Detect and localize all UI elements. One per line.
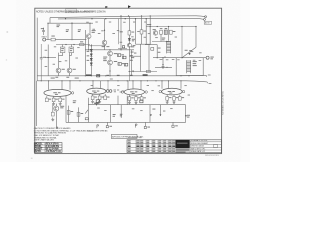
label value 12 (95, 21, 97, 24)
connector arrow B (159, 114, 161, 116)
node rail-upper junction 3 (141, 15, 142, 16)
wire drop x165 (164, 56, 166, 58)
wire C5 to Q7 (59, 53, 63, 56)
node bottom bus j1 (96, 104, 97, 105)
component cluster x122 (122, 46, 124, 48)
label lamp b (114, 90, 116, 93)
wire input to Q1 base (55, 39, 86, 41)
label x131 b (130, 59, 133, 62)
title right hline 3 (190, 146, 222, 148)
transistor Q8 (67, 68, 72, 73)
label bias text b (162, 38, 165, 41)
wire y56 link (129, 55, 140, 57)
tube V4 cathode wire 3 (179, 95, 181, 97)
label value 41 (163, 110, 165, 113)
resistor V4 cathode R1 (166, 97, 169, 101)
connector P1 pin 1 (205, 16, 207, 18)
stamp box col line (44, 143, 46, 153)
label R31 (81, 112, 84, 115)
label mid-right b (131, 56, 134, 59)
title grid text row 1 (128, 140, 131, 141)
diode CR4b (90, 63, 92, 65)
label value 6 (120, 41, 123, 44)
tube V1 envelope (44, 89, 71, 96)
node heater rail junction 14 (161, 80, 162, 81)
node lower bus junction 1b (91, 75, 92, 76)
tube V2 cathode wire 3 (104, 94, 106, 96)
node output row junction 1 (157, 57, 158, 58)
resistor R30 (67, 110, 70, 114)
wire drop x141 lower (141, 34, 143, 44)
label bias network (103, 56, 107, 59)
label below output row 5 (193, 59, 196, 62)
ground below V1 R3 (59, 102, 62, 105)
label value 26 (77, 46, 79, 49)
capacitor C5 box (60, 47, 65, 53)
label Q1 (92, 29, 96, 32)
label R10 (131, 31, 134, 34)
node rail-upper junction 1 (120, 15, 121, 16)
node T1 feed j (168, 26, 169, 27)
node heater rail junction 11 (140, 80, 141, 81)
diode CR2 (90, 54, 92, 56)
tube V2 envelope (87, 88, 106, 94)
wire bottom bus upper (88, 104, 186, 106)
wire drop x135 (135, 19, 137, 45)
wire Q4 top lead (109, 50, 111, 51)
tube V1 cathode wire 2 (53, 96, 55, 98)
label C2 (66, 28, 69, 31)
label V1 R2 (56, 98, 58, 101)
resistor V3 cathode R1 (128, 97, 131, 101)
title grid vline 6 (162, 140, 164, 153)
label out rect b (152, 108, 155, 111)
label value 9 (144, 36, 146, 39)
resistor R16 (160, 30, 163, 34)
node bias bus j4 (181, 26, 182, 27)
svg-text:SCHEMATIC 026145 REV A: SCHEMATIC 026145 REV A (221, 91, 224, 115)
resistor R5 horizontal (80, 43, 84, 45)
node bias bus j3 (157, 26, 158, 27)
label value 3 (101, 29, 103, 32)
wire Q5 bottom lead (109, 65, 111, 76)
label Q8 below (66, 76, 69, 79)
label R30 (71, 110, 74, 113)
label C6 (70, 47, 73, 50)
label bias row 6 (143, 74, 148, 76)
label R16 (160, 27, 163, 30)
wire Q6 bottom (55, 111, 57, 126)
title grid vline 2 (139, 140, 141, 153)
logo block (175, 140, 189, 148)
tube V3 tip circle right (145, 91, 147, 93)
connector jack JC (172, 122, 174, 125)
node rail-lower junction 6 (146, 18, 147, 19)
label x131 a (130, 54, 133, 57)
label rail above (110, 78, 113, 81)
wire y57 link (45, 57, 56, 59)
wire drop x146 (145, 19, 147, 45)
label rail end a (208, 74, 211, 77)
wire bus slant (85, 110, 88, 114)
transistor Q7 (56, 68, 61, 73)
node heater rail junction 7 (107, 80, 108, 81)
label V4 (168, 90, 172, 93)
tube V1 tip circle (71, 92, 73, 94)
node heater rail junction 8 (117, 80, 118, 81)
label V3 R2 (138, 96, 140, 99)
label below output row 4 (177, 58, 179, 61)
tube V3 envelope (124, 89, 144, 95)
wire drop x50 from rail (49, 18, 51, 24)
wire bottom bus lower (66, 121, 186, 123)
node heater rail junction 12 (147, 80, 148, 81)
title right hline 1 (190, 141, 222, 143)
node lower bus junction 1 (85, 75, 86, 76)
node heater rail junction 2 (48, 80, 49, 81)
label CR stack (87, 50, 90, 53)
node Q5 emitter junction (109, 70, 110, 71)
ground below V2 R2 (98, 100, 101, 103)
label value 10 (148, 32, 150, 35)
wire C6 top stub (70, 45, 72, 48)
title right hline 2 (190, 144, 222, 146)
node heater rail junction 10 (132, 80, 133, 81)
transformer T1 primary (167, 41, 171, 54)
tube V4 cathode wire 2 (173, 95, 175, 97)
wire lower bus y76 (37, 75, 206, 77)
top border flag mark B (128, 6, 130, 9)
label below output row 3 (172, 58, 175, 61)
tube V4 tip circle right (182, 90, 184, 92)
label value 5 (117, 29, 119, 32)
diode CR7 (132, 71, 134, 73)
node x121 j (120, 49, 121, 50)
wire Q2 collector drop (104, 19, 106, 41)
wire C6 to Q8 (70, 53, 72, 56)
tube V1 pin 1 wire (48, 81, 50, 90)
label value 29 (91, 84, 93, 87)
diode CR6 on diagonal (188, 53, 190, 55)
wire Q1 emitter drop (88, 39, 90, 50)
tube V3 pin 2 wire (132, 81, 134, 90)
label value 31 (122, 90, 124, 93)
title right divider (189, 140, 191, 153)
component lower-left box (85, 118, 88, 120)
title grid text row 6 (128, 151, 131, 152)
label value 21 (155, 36, 158, 39)
label x157 a (158, 47, 161, 50)
label C3 (43, 56, 46, 59)
tube V3 cathode wire 2 (135, 95, 137, 97)
wire y45.8 link (88, 45, 106, 47)
capacitor C10 (117, 54, 120, 57)
label value 42 (170, 107, 172, 110)
node y49 j1 (88, 49, 89, 50)
label value 34 (158, 84, 160, 87)
tube V4 cathode wire 1 (166, 95, 168, 97)
tube V4 tip circle left (159, 90, 161, 92)
diode CR1 (90, 49, 92, 51)
node bias end j2 (188, 75, 189, 76)
tube V4 pin 3 wire (180, 81, 182, 89)
wire drop x149 phase (148, 45, 150, 72)
node output row junction 3 (181, 57, 182, 58)
wire right edge drop (185, 105, 187, 123)
title block outline (127, 140, 222, 153)
label value 22 (175, 36, 177, 39)
label value 36 (188, 94, 190, 97)
label x121b (120, 113, 123, 116)
title grid vline 4 (151, 140, 153, 153)
component box mid (151, 48, 154, 51)
scan speck left margin 2 (6, 59, 7, 62)
node bias bus j2 (195, 26, 196, 27)
label out rect a (113, 113, 116, 116)
ground below V3 R2 (135, 101, 138, 104)
wire y44 right link (145, 44, 157, 46)
label value 19 (75, 57, 78, 60)
title grid vline 3 (145, 140, 147, 153)
label bias row 3 (106, 74, 109, 77)
resistor R11 (140, 30, 143, 34)
ground below V4 R1 (166, 100, 169, 103)
connector P1 pin 2 (204, 19, 206, 21)
capacitor C3 (40, 58, 43, 59)
label Q2 (102, 45, 105, 48)
label value 33 (151, 89, 153, 92)
resistor V2 cathode R1 (91, 96, 94, 100)
title grid hline 3 (127, 149, 175, 151)
wire drop x131 (131, 50, 133, 76)
label bias bus (147, 23, 151, 26)
resistor V1 cathode R3 (59, 98, 62, 102)
label trem b (73, 101, 76, 104)
label R5 (80, 40, 83, 43)
wire y44 bus (56, 44, 90, 46)
title right hline 4 (190, 149, 222, 151)
node heater rail junction 15 (168, 80, 169, 81)
connector flag F1 (97, 125, 99, 128)
label V2 R3 (107, 96, 109, 99)
node heater rail junction 16 (180, 80, 181, 81)
node bias end j1 (180, 75, 181, 76)
resistor R17 (169, 30, 172, 34)
label below output row 6 (199, 59, 202, 62)
resistor V3 cathode R2 (135, 97, 138, 101)
label x121 component (120, 30, 123, 33)
label T1 secondary rows (193, 60, 197, 63)
wire upper-left horizontal (48, 22, 93, 24)
node rail-upper junction 4 (150, 15, 151, 16)
connector jack JB (144, 122, 146, 126)
wire drop x128 (128, 16, 130, 31)
transistor Q5 (108, 60, 113, 65)
label value 23 (191, 50, 193, 53)
wire y67 link (155, 66, 172, 68)
tube V1 pin 2 wire (61, 81, 63, 90)
title grid vline 7 (167, 140, 169, 153)
resistor V2 cathode R3 (104, 96, 107, 100)
stamp box row line 3 (34, 149, 62, 151)
wire drop x150b (149, 105, 151, 123)
wire y48 short (118, 48, 127, 50)
wire drop x157 (156, 45, 158, 58)
input jack J1 (43, 38, 46, 41)
wire x52 drop (52, 104, 54, 112)
capacitor C11 (123, 56, 126, 59)
wire drop x68 (68, 106, 70, 123)
top border flag mark A (106, 6, 107, 8)
wire phase bottom (130, 71, 157, 73)
resistor R20 (146, 70, 150, 72)
label V4 R1 (169, 96, 171, 99)
node rail-lower junction 2 (91, 18, 92, 19)
tube V2 cathode wire 1 (92, 94, 94, 96)
node rail-lower junction 3 (105, 18, 106, 19)
scan speck left margin (7, 31, 9, 34)
wire drop x160 (159, 105, 161, 115)
label bias row 4 (117, 74, 120, 77)
title grid vline 8 (171, 140, 173, 153)
label V4 R3 (182, 96, 184, 99)
label V2 (92, 90, 96, 93)
label JA (109, 125, 112, 128)
wire drop x121b (120, 105, 122, 118)
label CR6 (185, 49, 188, 52)
title grid text row 3 (128, 145, 131, 146)
label value 40 (140, 109, 142, 112)
stamp box outline (34, 143, 62, 153)
wire x196 drop (195, 27, 197, 48)
connector flag F0 (56, 126, 58, 128)
wire left vertical bus (36, 18, 38, 81)
logo address line 3 (176, 151, 186, 154)
wire drop x90 to Q1 (89, 23, 91, 34)
label rail note a (51, 77, 55, 80)
label value 16 (144, 21, 146, 24)
wire Q7 emitter (58, 73, 60, 76)
wire x161 stub (160, 34, 162, 41)
connector arrow C (185, 115, 187, 117)
node rail-upper junction 2 (128, 15, 129, 16)
node heater rail junction 5 (79, 80, 80, 81)
node Q2 drop junction (104, 30, 105, 31)
wire Q8 emitter (69, 73, 71, 76)
title right small box (213, 145, 217, 148)
wire drop x88 long (88, 98, 90, 123)
wire output row (153, 57, 203, 59)
label J5 (210, 56, 213, 59)
resistor V4 cathode R3 (178, 97, 181, 101)
label R1 (51, 35, 54, 38)
wire C5 top stub (62, 45, 64, 48)
title block small text above (128, 136, 137, 139)
resistor V3 cathode R3 (140, 97, 143, 101)
resistor dark box V3 (140, 100, 143, 103)
title grid vline 5 (157, 140, 159, 153)
capacitor C13 (124, 63, 127, 66)
resistor R10 (128, 31, 131, 35)
transistor Q6 tremolo (54, 106, 59, 111)
wire bias bus y26 (146, 26, 196, 28)
wire heater rail (37, 81, 207, 82)
label C16 (165, 27, 168, 30)
node diode column top (91, 45, 92, 46)
label V1 R1 (49, 98, 51, 101)
label bias text a (162, 37, 165, 40)
label V1 R3 (62, 98, 64, 101)
wire drop x121 (120, 16, 122, 50)
wire bias y41 (152, 41, 169, 43)
logo address line 1 (176, 149, 190, 150)
label fuse (94, 103, 99, 104)
node upper-left junction (71, 23, 72, 24)
label x128 a (133, 44, 136, 47)
stamp box row line 1 (34, 144, 62, 146)
wire drop x66 (65, 96, 67, 123)
node upper-left junction 2 (47, 23, 48, 24)
label value 35 (184, 84, 186, 87)
node output row junction 2 (162, 57, 163, 58)
label bias row 1 (86, 74, 92, 76)
tube V4 envelope (162, 88, 183, 95)
label rail note b (75, 77, 79, 80)
label x157 b (158, 51, 161, 54)
label JB (147, 126, 150, 129)
tube V1 pin 3 wire (69, 81, 71, 90)
tube V3 cathode wire 1 (128, 95, 130, 97)
resistor R1 (51, 38, 55, 41)
wire x150 bias drop (149, 27, 151, 45)
label value 20 (65, 59, 67, 62)
label Q8 (73, 68, 76, 71)
label JC (175, 124, 178, 127)
diode CR4 (128, 38, 130, 40)
wire drop x118 long (117, 96, 119, 105)
transistor Q4 (108, 51, 113, 56)
ground Q6 gnd (51, 118, 54, 121)
resistor V2 cathode R2 (98, 96, 101, 100)
wire drop x150 (149, 16, 151, 45)
label value 32 (147, 84, 149, 87)
ground output gnd (162, 65, 165, 68)
node x48 junction (48, 57, 49, 58)
label P1 (204, 21, 211, 24)
ground below V1 R2 (52, 102, 55, 105)
label value 30 (117, 84, 119, 87)
wire Q7 base drop (58, 53, 60, 69)
node heater rail junction 3 (61, 80, 62, 81)
node heater rail junction 4 (69, 80, 70, 81)
node upper-left junction 3 (89, 23, 90, 24)
label value 37 (97, 107, 100, 110)
wire drop x140 phase (140, 44, 142, 71)
label trem a (73, 99, 76, 102)
wire diag bias (182, 47, 196, 58)
label R3 (78, 28, 81, 31)
label V3 R1 (131, 96, 133, 99)
label x128 b (131, 51, 134, 54)
footer speck (31, 157, 33, 160)
label V3 (130, 90, 134, 93)
lamp jacks pair (106, 90, 109, 93)
wire Q4-Q5 link (109, 56, 111, 60)
wire drop x48 (47, 23, 49, 39)
node bias bus j1 (150, 26, 151, 27)
capacitor C12 (118, 63, 121, 66)
label value 13 (109, 21, 111, 24)
